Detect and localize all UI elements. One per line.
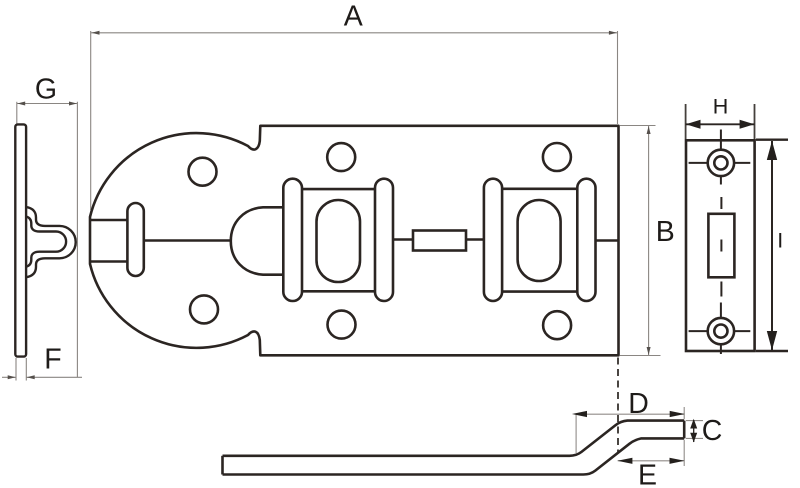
bracket 2 left tab capsule [484,179,502,301]
dimension G extension line left [16,102,18,125]
bracket 1 left tab capsule [283,179,302,301]
dimension D arrow right [670,411,685,417]
svg-text:G: G [35,73,57,105]
bolt head box top edge [90,219,127,222]
dimension A arrow left [92,31,100,35]
dimension I extension line top [756,138,788,140]
dimension H extension line left [685,104,687,139]
dimension E arrow right [670,458,685,464]
dimension C arrow bottom [690,433,697,443]
dimension H arrow left [686,120,701,129]
bracket 1 bridge top edge [302,188,375,191]
bolt profile lower bar top edge [223,421,685,456]
svg-text:B: B [656,216,675,248]
bolt knob capsule [127,203,143,276]
dimension C extension line top [686,420,703,422]
bolt link rectangle [413,231,466,251]
dimension G arrow right [69,102,77,106]
bolt profile right end cap [683,421,686,439]
bracket 2 bridge top edge [502,188,577,191]
dimension D extension line left [575,414,577,453]
keeper bottom hole horizontal centerline [689,330,751,332]
bracket 2 slot obround [518,200,561,281]
screw hole bottom-right [543,311,571,339]
svg-text:H: H [713,94,729,118]
svg-text:C: C [702,415,723,447]
keeper bottom hole outer circle [708,318,734,344]
keeper slot centerline dash bottom [720,282,722,297]
main plate outline [90,126,619,355]
dimension G extension line right [76,102,78,378]
keeper top hole horizontal centerline [689,162,751,164]
dimension C extension line bottom [686,437,703,439]
dimension A extension line right [617,31,619,124]
dimension A line [91,32,617,34]
bolt rod segment 3 [466,238,484,241]
keeper slot rectangle [708,214,734,277]
dimension I arrow top [767,141,777,160]
dimension I extension line bottom [756,350,788,352]
dimension B extension line bottom [620,355,661,357]
dimension E arrow left [617,458,632,464]
dimension E line [618,460,685,462]
keeper slot centerline dash top [720,197,722,209]
keeper slot centerline dash middle [720,240,722,252]
dimension G line [17,103,78,105]
projection dashed line [617,358,619,453]
side view bolt knob inner profile [26,217,66,267]
dimension F arrow left [8,375,16,379]
svg-text:D: D [628,388,649,420]
keeper plate outline [686,140,755,351]
bolt nose dome [231,207,283,274]
keeper top hole inner circle [714,156,727,169]
dimension H extension line right [754,104,756,139]
keeper bottom hole vertical centerline [720,303,722,355]
screw hole top-middle [327,143,355,171]
bolt profile left end cap [221,456,224,475]
dimension F extension line left [15,358,17,381]
dimension H line [686,123,755,125]
dimension F extension line right [25,358,27,381]
screw hole top-left [189,158,217,186]
dimension B extension line top [620,125,656,127]
bracket 2 right tab capsule [577,179,595,301]
dimension F line left segment [2,376,16,378]
dimension C arrow top [690,419,697,429]
bracket 2 bridge bottom edge [502,290,577,293]
dimension G arrow left [17,102,25,106]
dimension B line [648,126,650,355]
bolt head box bottom edge [90,260,127,263]
screw hole bottom-middle [328,311,356,339]
svg-text:E: E [638,460,657,488]
dimension B arrow top [647,126,651,134]
dimension B arrow bottom [647,347,651,355]
dimension A arrow right [609,31,617,35]
bolt profile lower bar bottom edge [223,438,685,474]
dimension D line [576,413,684,415]
svg-text:I: I [777,229,783,253]
screw hole bottom-left [190,295,218,323]
bolt rod segment 4 [596,239,619,242]
keeper top hole vertical centerline [720,130,722,185]
dimension I line [771,141,773,350]
dimension A extension line left [90,31,92,210]
dimension E extension line right [683,440,685,466]
bracket 1 slot obround [317,200,361,282]
bolt rod segment 1 [144,239,232,242]
side view bolt knob outer profile [26,207,76,277]
bracket 1 bridge bottom edge [302,290,375,293]
dimension I arrow bottom [767,331,777,350]
side view plate strip [15,124,26,356]
dimension H arrow right [740,120,755,129]
dimension F line right segment [26,376,82,378]
svg-text:F: F [44,344,61,376]
dimension D extension line right [683,407,685,419]
bolt rod segment 2 [393,238,413,241]
bracket 1 right tab capsule [375,179,393,301]
screw hole top-right [543,143,571,171]
dimension D arrow left [572,411,587,417]
keeper top hole outer circle [708,150,734,176]
svg-text:A: A [344,1,363,33]
keeper bottom hole inner circle [714,325,727,338]
dimension F arrow right [27,375,35,379]
dimension C line [693,420,695,442]
